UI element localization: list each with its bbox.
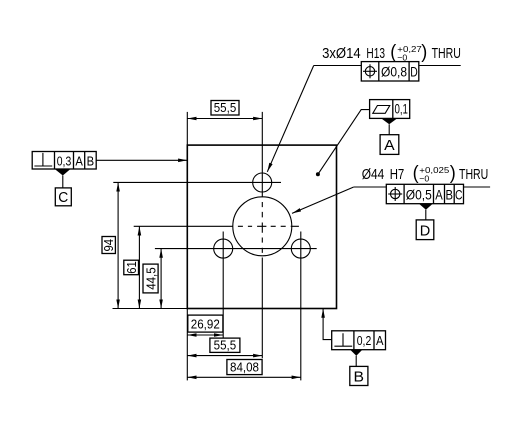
symbol position — [363, 64, 377, 78]
svg-text:Ø44: Ø44 — [362, 167, 385, 183]
svg-text:94: 94 — [101, 239, 116, 252]
center line vertical left hole — [222, 232, 224, 339]
symbol position — [388, 187, 402, 201]
datum triangle A — [381, 118, 397, 124]
svg-text:A: A — [376, 333, 384, 348]
svg-text:0,3: 0,3 — [57, 153, 72, 168]
datum box C — [55, 188, 71, 206]
part outline — [187, 145, 336, 308]
dimension 55,5 top — [187, 118, 262, 120]
leader shoulder Ø44 — [354, 186, 490, 188]
svg-text:55,5: 55,5 — [214, 337, 237, 352]
svg-text:A: A — [384, 138, 395, 154]
svg-text:B: B — [354, 369, 365, 385]
leader shoulder 3xØ14 — [314, 65, 461, 67]
FCF perpendicularity 0,3 A B — [32, 152, 96, 170]
dimension 84,08 — [187, 376, 300, 378]
dimension 61 — [138, 226, 140, 308]
symbol flatness — [373, 106, 390, 114]
datum triangle C — [55, 169, 70, 175]
svg-text:B: B — [87, 153, 95, 168]
svg-text:H7: H7 — [390, 167, 405, 183]
svg-text:D: D — [420, 223, 431, 239]
leader arrow to Ø44 — [292, 187, 354, 213]
svg-text:): ) — [421, 42, 427, 63]
svg-text:61: 61 — [124, 261, 139, 274]
center line horizontal Ø44 — [134, 225, 299, 227]
dimension 55,5 bottom — [187, 355, 262, 357]
datum box D — [416, 220, 434, 240]
center line vertical right hole — [300, 232, 302, 381]
svg-text:C: C — [455, 187, 463, 202]
svg-text:Ø0,8: Ø0,8 — [381, 65, 407, 80]
FCF position Ø0,8 D — [361, 62, 419, 81]
hole Ø14 right — [291, 239, 310, 258]
svg-text:): ) — [450, 163, 456, 184]
FCF flatness 0,1 — [370, 100, 410, 119]
svg-text:44,5: 44,5 — [143, 267, 158, 290]
dimension 26,92 — [187, 334, 223, 336]
extension line left edge bottom — [186, 309, 188, 381]
hole Ø44 — [233, 197, 292, 256]
datum box B — [350, 366, 368, 385]
svg-text:Ø0,5: Ø0,5 — [406, 187, 432, 202]
svg-text:B: B — [446, 187, 454, 202]
leader to bottom edge — [323, 312, 332, 340]
datum triangle B — [350, 350, 362, 356]
svg-text:55,5: 55,5 — [214, 100, 237, 115]
svg-text:3xØ14: 3xØ14 — [322, 46, 361, 62]
svg-text:26,92: 26,92 — [191, 317, 220, 332]
FCF perpendicularity 0,2 A — [332, 331, 386, 350]
center line vertical main — [261, 112, 263, 358]
svg-text:0,1: 0,1 — [394, 101, 408, 116]
svg-text:84,08: 84,08 — [230, 359, 259, 374]
symbol perpendicular — [334, 333, 352, 346]
center line horizontal side holes — [155, 248, 317, 250]
svg-text:0,2: 0,2 — [357, 333, 372, 348]
leader with dot on face — [318, 110, 370, 175]
dimension 94 — [117, 182, 119, 308]
datum triangle D — [419, 204, 433, 210]
hole Ø14 left — [214, 239, 233, 258]
svg-text:C: C — [58, 190, 68, 206]
leader to left edge — [96, 159, 187, 161]
hole Ø14 top — [253, 173, 272, 192]
svg-text:A: A — [75, 153, 83, 168]
center line horizontal top hole — [113, 181, 281, 183]
dimension 44,5 — [160, 249, 162, 309]
svg-text:H13: H13 — [366, 46, 385, 62]
datum box A — [380, 135, 399, 155]
FCF position Ø0,5 A B C — [386, 184, 463, 203]
svg-text:D: D — [410, 65, 418, 80]
svg-text:THRU: THRU — [432, 46, 461, 62]
leader arrow to top hole — [267, 66, 313, 172]
svg-text:−0: −0 — [419, 174, 429, 184]
symbol perpendicular — [34, 153, 52, 166]
extension line left edge top — [186, 112, 188, 145]
svg-text:THRU: THRU — [459, 167, 488, 183]
svg-text:A: A — [435, 187, 443, 202]
extension line bottom-left — [113, 308, 188, 310]
svg-text:(: ( — [413, 163, 420, 184]
svg-text:(: ( — [390, 42, 397, 63]
